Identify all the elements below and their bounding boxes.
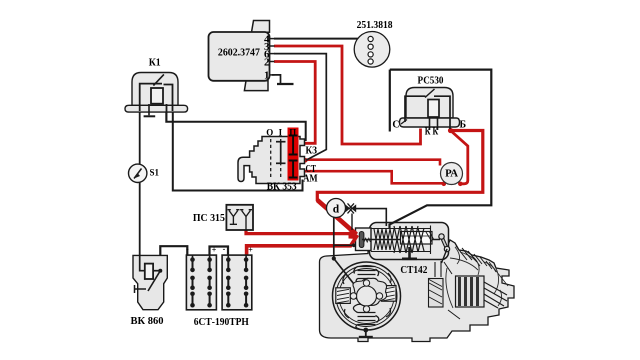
svg-text:+: + — [212, 246, 217, 255]
wire ST to PA — [305, 160, 440, 166]
K1 coil — [151, 88, 163, 104]
svg-text:П: П — [289, 128, 296, 138]
wire PC530 frame to solenoid — [390, 70, 492, 229]
wire VK860 to battery minus — [160, 246, 187, 270]
svg-text:О: О — [266, 128, 273, 138]
svg-text:S1: S1 — [150, 168, 160, 178]
wire connector leg — [351, 214, 353, 231]
svg-text:251.3818: 251.3818 — [357, 19, 393, 31]
connector 251.3818 — [354, 19, 393, 67]
solenoid plunger rod — [362, 226, 440, 255]
position O dashes — [271, 139, 281, 178]
svg-text:+: + — [248, 246, 253, 255]
motor cross-section — [333, 262, 401, 337]
wire PS315 to solenoid — [246, 230, 356, 234]
svg-text:ВК 353: ВК 353 — [267, 182, 297, 193]
solenoid spring coil 2 — [394, 226, 424, 253]
svg-text:6СТ-190ТРН: 6СТ-190ТРН — [194, 317, 249, 328]
svg-text:d: d — [333, 204, 340, 216]
socket PS315 — [193, 205, 253, 230]
wire pin4 to connector 251 — [274, 38, 363, 40]
svg-text:Б: Б — [459, 119, 466, 130]
pin 3 — [270, 45, 275, 47]
svg-text:-: - — [186, 245, 189, 254]
VK860 coil — [145, 264, 153, 279]
pin 6 — [270, 53, 275, 55]
solenoid terminal block — [356, 228, 372, 251]
pin 2 — [270, 61, 275, 63]
K1 contact arm — [153, 74, 164, 85]
wire d-circle to terminal and motor — [334, 217, 356, 245]
PC530 pin K2 — [437, 117, 439, 130]
svg-text:АМ: АМ — [303, 174, 318, 185]
rotation arrows — [343, 273, 391, 318]
wire pin3 to K of PC530 — [274, 46, 421, 144]
pin 1 — [270, 74, 275, 76]
wire B junction to PA right — [451, 131, 468, 184]
PC530 coil — [428, 100, 439, 118]
VK860 contact arm — [148, 271, 160, 291]
ground at motor bottom — [363, 328, 368, 333]
starter CT142 housing — [320, 240, 515, 342]
switch S1 — [129, 164, 160, 182]
PC530 contact arm — [425, 89, 435, 98]
position II red column — [288, 128, 299, 181]
wire K1 to S1 to VK860 — [139, 111, 141, 255]
connector arrows — [345, 204, 350, 212]
wire K1 to AM (frame) — [173, 110, 303, 191]
field coil top — [354, 267, 379, 287]
solenoid lever — [439, 234, 450, 263]
node B junction dot — [448, 128, 453, 133]
solenoid body — [370, 223, 449, 260]
svg-text:СТ142: СТ142 — [400, 265, 427, 276]
svg-text:2602.3747: 2602.3747 — [218, 46, 260, 58]
PC530 pin C tick — [401, 120, 407, 125]
node PA left dot — [442, 182, 447, 187]
wire AM to PA left — [303, 171, 444, 183]
svg-text:РА: РА — [445, 169, 459, 180]
wire battery jumper — [210, 247, 229, 256]
svg-text:К К: К К — [425, 127, 439, 138]
solenoid spring coil 1 — [374, 229, 394, 250]
svg-text:КЗ: КЗ — [305, 146, 317, 157]
bendix drive — [429, 262, 508, 319]
master switch VK860 — [131, 255, 168, 327]
svg-text:I: I — [279, 128, 283, 138]
svg-text:ПС 315: ПС 315 — [193, 213, 225, 224]
ground pin1 — [272, 75, 281, 84]
K1 internal wire right — [164, 85, 173, 112]
position I contact — [276, 142, 286, 164]
relay PC530 — [392, 76, 466, 138]
PC530 pin K1 — [429, 117, 431, 130]
VK860 contact post — [135, 285, 147, 293]
svg-text:1: 1 — [264, 70, 270, 82]
red arrow tip — [349, 231, 357, 239]
node VK860 junction — [158, 269, 162, 273]
wire B junction to solenoid — [317, 131, 483, 202]
relay block 2602.3747 — [209, 21, 275, 91]
wire pin6 to ST — [274, 54, 326, 161]
svg-text:-: - — [223, 245, 226, 254]
wire battery plus to solenoid — [247, 235, 358, 256]
svg-text:К1: К1 — [149, 58, 161, 69]
armature — [350, 278, 386, 312]
wire K1 to KZ — [166, 110, 305, 141]
d-circle symbol — [327, 199, 357, 218]
brush right — [382, 286, 397, 302]
field coil bottom — [353, 304, 378, 329]
wire pin2 to KZ — [274, 62, 315, 144]
svg-text:РС530: РС530 — [418, 76, 444, 87]
svg-text:С: С — [392, 120, 399, 131]
wire connector symbol to solenoid — [356, 209, 386, 226]
wire PC530 frame left edge — [389, 70, 391, 132]
K1 internal wire left — [140, 84, 162, 111]
node ST dot — [303, 158, 308, 163]
ground K1 — [144, 115, 156, 117]
svg-text:2: 2 — [264, 56, 270, 68]
ignition switch VK353 — [238, 128, 318, 193]
ground under solenoid — [402, 247, 417, 259]
relay K1 — [125, 58, 188, 122]
K1 coil ground lead — [148, 104, 150, 115]
VK860 coil link — [153, 270, 160, 272]
node PA right dot — [458, 182, 463, 187]
PC530 internal wire right — [434, 96, 450, 129]
svg-text:ВК 860: ВК 860 — [131, 316, 164, 327]
K1 coil output lead — [166, 104, 168, 122]
PC530 internal wire left — [405, 96, 426, 122]
ammeter PA — [441, 163, 463, 185]
brush left — [336, 288, 351, 304]
VK860 input lead — [140, 255, 145, 271]
pin 4 — [270, 38, 275, 40]
batteries 6CT-190TPH — [186, 245, 253, 328]
